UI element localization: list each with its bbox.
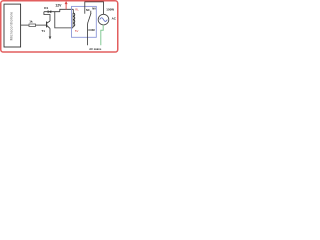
svg-text:COM: COM (88, 28, 95, 32)
svg-text:NA: NA (92, 6, 96, 10)
relay NC contact wire up to lamp (85, 2, 104, 14)
svg-text:1k: 1k (29, 20, 33, 24)
wire resistor to base of T1 (36, 24, 47, 26)
wire MCU to resistor R1 (21, 24, 29, 26)
border frame (1, 1, 118, 52)
lamp / AC source circle (98, 14, 109, 25)
svg-text:NC: NC (86, 8, 90, 12)
resistor R1 (29, 24, 36, 27)
svg-text:150W: 150W (106, 8, 114, 12)
svg-text:Microcontrollore: Microcontrollore (10, 12, 14, 41)
svg-text:D1: D1 (44, 6, 48, 10)
relay coil top wire (72, 9, 74, 13)
svg-text:5V: 5V (75, 29, 79, 33)
microcontroller U1 box (4, 4, 21, 47)
wire collector up to diode node (44, 12, 50, 21)
NA contact stub (90, 11, 92, 13)
relay switch arm and COM wire (88, 13, 91, 45)
green wire AC source to mains (101, 25, 103, 45)
+12V supply arrow (65, 1, 67, 9)
relay K1 box (72, 6, 97, 37)
wire emitter down (49, 28, 51, 36)
ground arrow at emitter (49, 37, 52, 40)
diode D1 (44, 10, 60, 13)
relay coil L1 (73, 13, 75, 26)
svg-text:RL: RL (75, 7, 79, 11)
sine wave inside AC source (100, 18, 108, 22)
svg-text:T1: T1 (41, 29, 45, 33)
NC contact dot (83, 12, 86, 15)
wire diode node to relay coil bottom (55, 12, 73, 28)
relay coil bottom wire (72, 26, 74, 28)
svg-text:AC mains: AC mains (89, 47, 102, 51)
svg-text:12V: 12V (55, 4, 62, 8)
wire diode to 12V rail (60, 9, 74, 11)
transistor T1 (NPN) (47, 21, 50, 28)
NA contact dot (89, 12, 92, 15)
